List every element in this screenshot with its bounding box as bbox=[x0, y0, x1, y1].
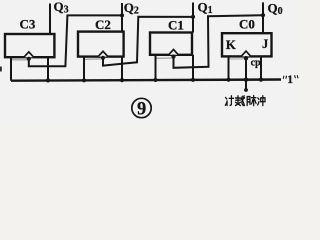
svg-text:Q1: Q1 bbox=[198, 0, 213, 16]
flip-flop C2 bbox=[78, 17, 124, 57]
svg-text:K: K bbox=[226, 37, 237, 52]
glyph ji bbox=[225, 96, 233, 106]
clock triangle C2 bbox=[98, 51, 108, 56]
svg-text:C3: C3 bbox=[20, 17, 36, 32]
junction dot J2 on rail bbox=[120, 78, 124, 82]
label count pulse (Chinese: ji shu mai chong) bbox=[225, 96, 265, 106]
wire faint link K1 to C1 clock bbox=[157, 57, 173, 59]
flip-flop C3 bbox=[5, 17, 54, 58]
junction dot on Q0 line bbox=[261, 13, 265, 17]
wire J pin C3 to rail bbox=[47, 57, 49, 80]
wire faint link K2 to C2 clock bbox=[85, 58, 102, 61]
svg-text:Q0: Q0 bbox=[268, 1, 283, 18]
junction dot on Q2 line bbox=[120, 13, 124, 17]
logic 1 rail bbox=[11, 80, 281, 81]
junction dot K2 on rail bbox=[82, 78, 86, 82]
node Q1 output wire bbox=[192, 3, 194, 33]
wire Q0 to C1 clock (staircase) bbox=[174, 15, 264, 68]
junction dot J3 on rail bbox=[46, 78, 50, 82]
junction dot K0 on rail bbox=[226, 78, 230, 82]
svg-text:C2: C2 bbox=[95, 17, 111, 32]
figure number 9 circled bbox=[132, 98, 151, 119]
node Q2 output wire bbox=[121, 3, 123, 32]
node Q3 output wire bbox=[49, 4, 51, 35]
junction dot on Q1 line bbox=[191, 15, 195, 19]
wire K pin C1 to rail bbox=[155, 55, 157, 80]
flip-flop C0 bbox=[222, 17, 272, 57]
node Q0 output wire bbox=[262, 2, 264, 33]
svg-text:Q3: Q3 bbox=[54, 0, 69, 16]
svg-text:C0: C0 bbox=[239, 17, 255, 32]
glyph chong bbox=[258, 96, 265, 106]
glyph shu bbox=[236, 96, 245, 106]
wire J pin C2 to rail bbox=[121, 57, 123, 81]
junction dot at C2 clock bbox=[101, 56, 105, 60]
flip-flop C1 bbox=[150, 18, 192, 55]
label "1" bbox=[283, 74, 298, 86]
wire Q2 to C3 clock (staircase) bbox=[29, 15, 122, 66]
clock triangle C1 bbox=[169, 50, 179, 55]
junction dot at C0 clock bbox=[244, 56, 248, 60]
wire faint link K0 to C0 clock bbox=[230, 58, 246, 60]
clock triangle C3 bbox=[24, 52, 34, 57]
svg-text:Q2: Q2 bbox=[124, 0, 139, 17]
scan artifact mark at left edge bbox=[0, 67, 2, 72]
wire faint link K3 to C3 clock bbox=[10, 59, 28, 61]
junction dot J0 on rail bbox=[259, 78, 263, 82]
wire K pin C2 to rail bbox=[83, 57, 85, 81]
svg-text:1: 1 bbox=[287, 74, 293, 86]
svg-text:cp: cp bbox=[251, 57, 261, 68]
junction dot J1 on rail bbox=[191, 78, 195, 82]
wire J pin C0 to rail bbox=[260, 56, 262, 79]
junction dot CP on rail bbox=[244, 78, 248, 82]
CP line end dot bbox=[244, 88, 248, 92]
clock triangle C0 bbox=[241, 51, 251, 56]
junction dot at C3 clock bbox=[27, 57, 31, 61]
wire K pin C0 to rail bbox=[228, 56, 230, 79]
svg-text:J: J bbox=[262, 37, 268, 51]
wire Q1 to C2 clock (staircase) bbox=[103, 17, 193, 66]
svg-text:C1: C1 bbox=[168, 18, 184, 33]
wire J pin C1 to rail bbox=[192, 55, 194, 80]
svg-text:9: 9 bbox=[137, 99, 146, 119]
junction dot K1 on rail bbox=[153, 78, 157, 82]
glyph mai bbox=[247, 96, 256, 106]
wire K pin C3 to rail bbox=[10, 57, 12, 80]
wire CP input to C0 clock bbox=[245, 56, 247, 90]
junction dot at C1 clock bbox=[171, 55, 175, 59]
